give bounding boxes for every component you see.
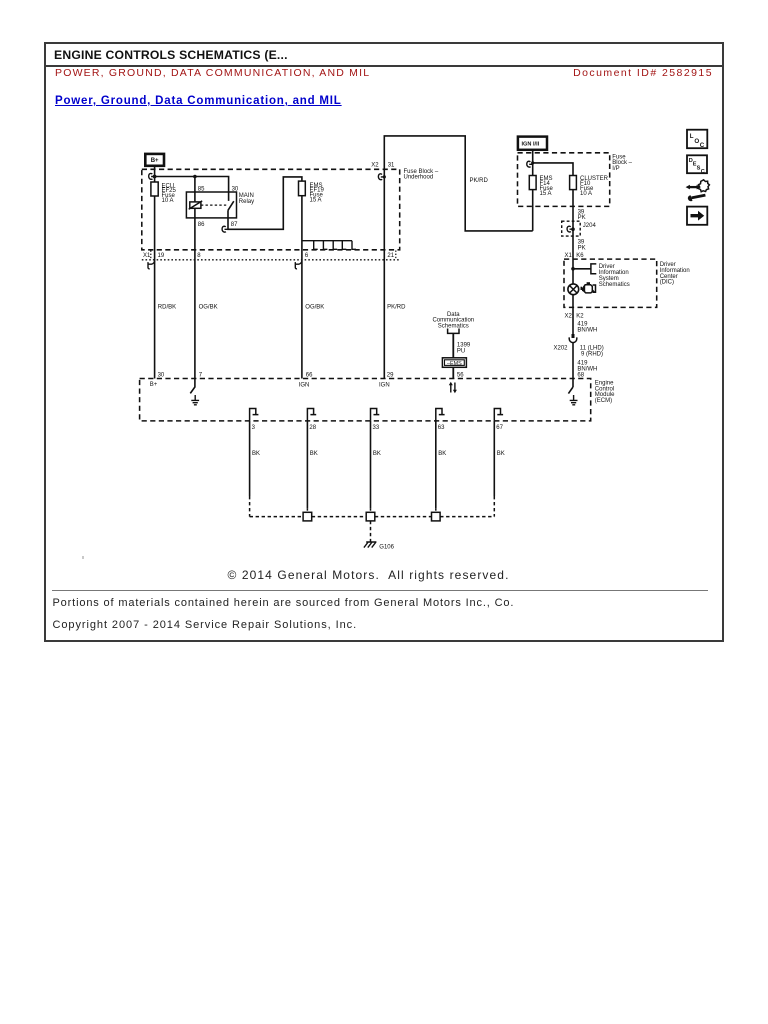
fuse block IP dashed box (518, 153, 610, 207)
junction node IP bus (531, 161, 534, 164)
splice block S3 (432, 512, 441, 521)
svg-text:X1: X1 (565, 253, 573, 259)
connector hook X2-31 (378, 174, 386, 180)
underhood fuse block dashed box (142, 169, 400, 250)
junction node at relay coil feed (193, 175, 197, 179)
svg-text:19: 19 (158, 253, 165, 259)
svg-text:9 (RHD): 9 (RHD) (581, 351, 603, 357)
relay K MAIN box (186, 192, 236, 218)
B+ battery feed box (145, 154, 164, 166)
svg-text:56: 56 (457, 372, 464, 378)
svg-text:PK: PK (578, 245, 586, 251)
svg-text:K6: K6 (576, 253, 584, 259)
svg-text:(DIC): (DIC) (660, 280, 674, 286)
svg-text:IGN: IGN (379, 382, 390, 388)
svg-text:Schematics: Schematics (599, 282, 630, 288)
svg-text:OG/BK: OG/BK (305, 305, 324, 311)
svg-text:X202: X202 (554, 346, 569, 352)
svg-text:Relay: Relay (239, 199, 254, 205)
svg-text:C: C (700, 142, 705, 149)
svg-text:B+: B+ (150, 382, 158, 388)
svg-text:IGN I/II: IGN I/II (522, 142, 540, 148)
ground wire pin 33 (371, 409, 381, 513)
ECM dashed box (140, 379, 591, 421)
icon shortcut hand tool (686, 180, 710, 201)
ECM internal ground 68 (570, 395, 578, 405)
svg-text:BK: BK (438, 451, 446, 457)
wire relay coil feed (194, 177, 196, 379)
icon DESC button (687, 155, 707, 175)
splice block S1 (303, 512, 312, 521)
svg-text:X1: X1 (143, 253, 151, 259)
connector hook X1-6 (295, 261, 302, 269)
connector hook X1-19 (148, 261, 155, 269)
connector hook at 87 bus (222, 226, 228, 232)
comb feed to other circuits (302, 241, 356, 250)
inline connector X202 (569, 334, 577, 343)
data communication reference bracket (448, 329, 459, 334)
ECM internal switch 7 (190, 379, 195, 394)
svg-text:15 A: 15 A (540, 191, 552, 197)
svg-text:66: 66 (306, 373, 313, 379)
title separator (45, 65, 723, 67)
svg-text:BK: BK (252, 451, 260, 457)
connector hook IP entry (527, 161, 533, 167)
svg-text:O: O (694, 138, 699, 145)
ECM internal switch 68 (568, 387, 573, 394)
junction node J204 (571, 227, 575, 231)
svg-text:Schematics: Schematics (438, 324, 469, 330)
splice block S2 (366, 512, 375, 521)
ground G106 symbol (364, 542, 377, 548)
svg-text:L: L (690, 133, 694, 140)
svg-text:PK/RD: PK/RD (387, 305, 406, 311)
wire relay 87 to EMS EF19 fuse (228, 177, 302, 229)
svg-text:RD/BK: RD/BK (158, 305, 176, 311)
svg-text:B+: B+ (151, 158, 159, 164)
wire RD/BK fuse to ECM pin 30 (154, 196, 156, 379)
X1 connector dotted row (142, 259, 400, 261)
wire OG/BK fuse EF19 to ECM pin 66 (301, 196, 303, 379)
svg-text:(ECM): (ECM) (595, 398, 612, 404)
wire 39 PK cluster fuse down to DIC (572, 190, 574, 284)
wire bulb to X2 K2 (572, 295, 574, 338)
wire branch to cluster fuse (533, 163, 573, 176)
connector hook J204 (567, 226, 573, 232)
fuse EMS EF19 15A (299, 181, 325, 203)
svg-text:G106: G106 (379, 545, 394, 551)
relay coil symbol (189, 201, 203, 209)
footer line 2 (53, 619, 358, 631)
EMS network node box (442, 358, 466, 368)
ECM internal ground 7 (191, 395, 199, 405)
footer separator (52, 590, 708, 591)
svg-text:30: 30 (232, 186, 239, 192)
svg-text:30: 30 (158, 373, 165, 379)
svg-text:PK: PK (578, 215, 586, 221)
svg-text:7: 7 (199, 373, 203, 379)
svg-text:X2: X2 (565, 314, 573, 320)
svg-text:BK: BK (497, 451, 505, 457)
svg-text:68: 68 (577, 372, 584, 378)
svg-text:OG/BK: OG/BK (199, 305, 218, 311)
wire from B+ into fuse block (154, 166, 156, 182)
IGN I/II feed box (518, 137, 547, 150)
svg-text:Underhood: Underhood (404, 175, 434, 181)
svg-text:28: 28 (309, 425, 316, 431)
svg-text:10 A: 10 A (580, 191, 592, 197)
bracket DIS reference (591, 264, 596, 274)
red subtitle (55, 67, 370, 79)
wire to DIS schematic reference (573, 268, 591, 270)
svg-text:63: 63 (438, 425, 445, 431)
svg-text:PU: PU (457, 348, 465, 354)
wire IGN riser in IP block (532, 150, 534, 231)
svg-text:29: 29 (387, 373, 394, 379)
fuse ECU EF25 10A (151, 182, 177, 204)
label Data Communication Schematics (432, 312, 474, 330)
relay dashed actuator link (201, 204, 226, 206)
wire to G106 (370, 521, 372, 542)
svg-text:BK: BK (310, 451, 318, 457)
scan artifact dot (82, 556, 84, 559)
ground wire pin 67 (494, 409, 504, 517)
svg-text:J204: J204 (583, 223, 597, 229)
wire 1399 PU (452, 333, 454, 357)
svg-text:IGN: IGN (299, 382, 310, 388)
svg-text:87: 87 (231, 222, 238, 228)
svg-text:I/P: I/P (612, 166, 619, 172)
svg-text:86: 86 (198, 222, 205, 228)
fuse CLUSTER F10 10A (570, 176, 609, 197)
outer frame (44, 42, 724, 642)
icon next arrow button (687, 207, 707, 225)
wire top bus from B+ to relay pin 30 (155, 177, 229, 201)
wire 419 BN/WH to ECM pin 68 (572, 343, 574, 387)
svg-text:6: 6 (305, 253, 309, 259)
copyright center (45, 568, 692, 582)
svg-text:BN/WH: BN/WH (577, 366, 597, 372)
DIC dashed box (564, 259, 657, 307)
svg-text:X2: X2 (371, 163, 379, 169)
svg-text:31: 31 (388, 163, 395, 169)
ground wire pin 63 (436, 409, 446, 513)
relay switch blade (228, 201, 234, 210)
title (54, 48, 288, 62)
document id (400, 67, 713, 79)
svg-text:8: 8 (197, 253, 201, 259)
svg-text:PK/RD: PK/RD (470, 178, 489, 184)
wire PK/RD pin31 riser (384, 136, 532, 379)
footer line 1 (53, 597, 515, 609)
blue link (55, 95, 342, 107)
X1 row end ticks (151, 251, 396, 260)
svg-text:15 A: 15 A (310, 198, 322, 204)
splice J204 dashed box (562, 221, 581, 236)
indicator bulb MIL (568, 284, 579, 295)
svg-text:10 A: 10 A (162, 198, 174, 204)
svg-text:K2: K2 (576, 314, 584, 320)
svg-text:BK: BK (373, 451, 381, 457)
icon LOC button (687, 130, 707, 150)
connector hook at B+ entry (149, 173, 157, 179)
ground wire pin 3 (250, 409, 260, 517)
svg-text:C: C (701, 169, 705, 175)
svg-text:33: 33 (373, 425, 380, 431)
serial data arrows (449, 382, 457, 393)
fuse EMS F14 15A (529, 176, 553, 197)
check engine icon (581, 283, 596, 293)
svg-text:3: 3 (252, 425, 256, 431)
svg-text:BN/WH: BN/WH (577, 327, 597, 333)
junction node DIC bus (571, 267, 575, 271)
ground wire pin 28 (307, 409, 317, 513)
wire EMS to ECM pin 56 (452, 367, 454, 378)
svg-text:67: 67 (496, 425, 503, 431)
svg-text:–EMS: –EMS (447, 361, 462, 367)
svg-text:85: 85 (198, 186, 205, 192)
ground bus dashed (250, 516, 495, 518)
svg-text:21: 21 (387, 253, 394, 259)
